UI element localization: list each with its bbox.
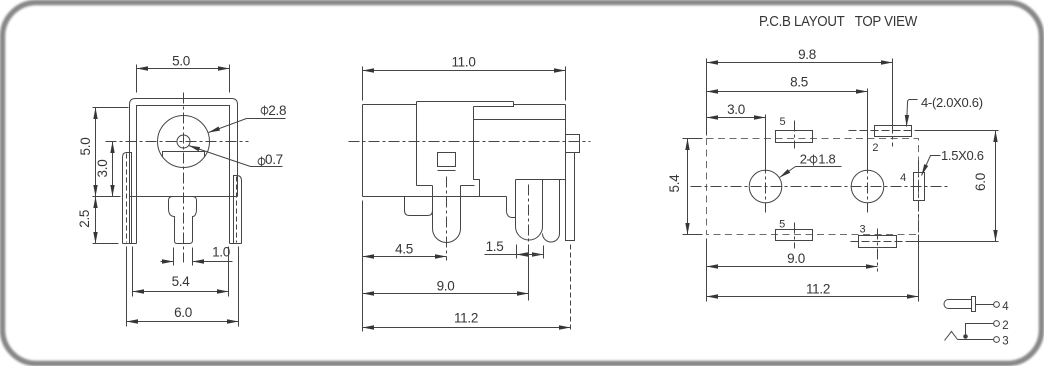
dim 1.0 line right bbox=[193, 261, 233, 263]
svg-text:5: 5 bbox=[779, 116, 785, 128]
front barrel circle (phi 2.8) bbox=[158, 116, 210, 168]
symbol plug barrel bbox=[944, 299, 972, 308]
side mid/rear boundary bbox=[474, 107, 480, 197]
symbol pin2 terminal bbox=[994, 321, 1000, 327]
dim 6.0 extensions bbox=[127, 247, 239, 327]
left wing lug bbox=[123, 153, 132, 244]
pcb pad 3 bbox=[859, 236, 897, 248]
dim 5.4 vertical extensions bbox=[683, 139, 703, 235]
dim 6.0 vertical line bbox=[995, 131, 997, 242]
pcb pad3 centerline bbox=[877, 229, 879, 272]
leader 4-(2.0X0.6) bbox=[907, 100, 918, 127]
symbol switch contact bbox=[945, 332, 958, 341]
dim 1.0 line left bbox=[161, 261, 174, 263]
symbol junction dot bbox=[964, 335, 968, 339]
side rear pin A centerline bbox=[528, 185, 530, 255]
svg-text:2: 2 bbox=[1002, 320, 1008, 332]
front body inner lines bbox=[137, 106, 230, 197]
svg-text:11.0: 11.0 bbox=[451, 55, 475, 70]
pcb horizontal centerline bbox=[691, 186, 949, 188]
left inner edge extension below bbox=[136, 197, 138, 244]
svg-text:4.5: 4.5 bbox=[395, 241, 413, 256]
pcb pad4 centerline extension bbox=[918, 235, 920, 302]
pcb pad2 centerline extension bbox=[892, 59, 894, 123]
phi glyph of 2-1.8 label bbox=[810, 156, 817, 163]
svg-text:4-(2.0X0.6): 4-(2.0X0.6) bbox=[921, 95, 983, 110]
front horizontal centerline bbox=[106, 141, 249, 143]
pcb hole left centerline extension bbox=[765, 115, 767, 163]
dim 5.0 left line bbox=[95, 108, 97, 197]
CONNECTOR SCHEMATIC SYMBOL bbox=[944, 297, 999, 343]
left wing bottom bbox=[123, 243, 137, 245]
svg-text:5.0: 5.0 bbox=[172, 54, 190, 69]
dim 11.2 line bbox=[707, 296, 919, 298]
pcb hole right bbox=[851, 170, 884, 203]
svg-text:5.4: 5.4 bbox=[172, 274, 191, 289]
svg-text:2.5: 2.5 bbox=[77, 210, 92, 228]
phi glyph of 2.8 label bbox=[261, 107, 268, 114]
side left extension below bbox=[362, 201, 364, 332]
pcb left dims common extension bbox=[706, 59, 708, 136]
front vertical centerline bbox=[183, 93, 185, 263]
pcb slot 5 bottom bbox=[776, 230, 813, 241]
right wing lug bbox=[234, 176, 242, 244]
side lug extension dashed bbox=[570, 245, 572, 332]
left wing hidden dash line bbox=[126, 154, 128, 243]
svg-text:1.0: 1.0 bbox=[212, 245, 230, 260]
pcb slot5 bottom centerline bbox=[794, 223, 796, 249]
leader phi2.8 bbox=[209, 119, 247, 133]
leader phi0.7 underline bbox=[251, 166, 283, 168]
leader phi0.7 bbox=[189, 146, 251, 167]
svg-text:9.8: 9.8 bbox=[798, 47, 816, 62]
right wing bottom bbox=[230, 243, 242, 245]
svg-text:P.C.B LAYOUT TOP VIEW: P.C.B LAYOUT TOP VIEW bbox=[759, 14, 918, 30]
right inner edge extension below bbox=[229, 197, 231, 244]
pcb pad4 centerline bbox=[918, 161, 920, 235]
front contact chord bbox=[163, 152, 205, 158]
side rear foot bbox=[507, 197, 516, 218]
dim 4.5 line bbox=[363, 256, 447, 258]
symbol plug flange bbox=[972, 297, 976, 312]
center solder pin bbox=[169, 197, 197, 244]
svg-text:1.5: 1.5 bbox=[486, 239, 504, 254]
side top tab bbox=[474, 102, 514, 107]
dim 3.0 line bbox=[707, 117, 766, 119]
dim 5.4 vertical line bbox=[687, 139, 689, 235]
dim 2.5 left line bbox=[95, 197, 97, 244]
svg-text:2.8: 2.8 bbox=[268, 103, 286, 118]
SIDE VIEW bbox=[349, 67, 591, 332]
pcb pad2 horizontal centerline bbox=[849, 130, 921, 132]
dim 9.0 line bbox=[363, 293, 529, 295]
svg-text:5.0: 5.0 bbox=[78, 138, 93, 156]
dim 11.0 line bbox=[363, 70, 566, 72]
dim 11.2 line bbox=[363, 327, 571, 329]
svg-text:2: 2 bbox=[872, 142, 878, 154]
svg-text:2-: 2- bbox=[800, 152, 811, 167]
dim 5.0 top line bbox=[137, 68, 230, 70]
phi glyph of 0.7 label bbox=[258, 158, 265, 165]
pcb outline dashed rect bbox=[707, 139, 919, 235]
symbol pin4 terminal bbox=[994, 302, 1000, 308]
leader 1.5X0.6 bbox=[922, 156, 941, 176]
svg-text:9.0: 9.0 bbox=[437, 279, 455, 294]
dim 1.5 inner arrow bbox=[517, 254, 544, 256]
FRONT VIEW bbox=[93, 65, 286, 327]
dim 6.0 bottom extension bbox=[909, 241, 999, 243]
dim 6.0 line bbox=[127, 321, 239, 323]
side rear inner line bbox=[474, 119, 566, 121]
dim 5.4 extensions bbox=[133, 247, 229, 297]
svg-text:8.5: 8.5 bbox=[790, 75, 808, 90]
side rear pin A centerline extension bbox=[528, 255, 530, 301]
dim 1.5 line bbox=[485, 254, 544, 256]
front body outer shell bbox=[130, 99, 238, 197]
dim 6.0 top extension bbox=[921, 130, 999, 132]
pcb hole right centerline extension bbox=[867, 89, 869, 163]
svg-text:3: 3 bbox=[1002, 336, 1008, 348]
dim 3.0 left line bbox=[112, 142, 114, 197]
side front foot bbox=[405, 197, 433, 216]
side lug bar bbox=[566, 153, 575, 241]
dim 5.0 top extension lines bbox=[137, 65, 230, 93]
pcb hole left bbox=[749, 170, 782, 203]
side rear top edge bbox=[514, 104, 566, 106]
side body left edge bbox=[362, 105, 364, 197]
svg-text:6.0: 6.0 bbox=[973, 173, 988, 191]
side front/mid boundary bbox=[416, 102, 418, 186]
side notch bbox=[417, 185, 433, 187]
pcb pad 2 bbox=[875, 126, 912, 137]
svg-text:11.2: 11.2 bbox=[806, 281, 830, 296]
pcb pad 4 bbox=[914, 173, 925, 201]
svg-text:0.7: 0.7 bbox=[265, 152, 283, 167]
front body bottom edge bbox=[130, 196, 238, 198]
left body edge extension below bbox=[129, 197, 131, 244]
dim 9.0 line bbox=[707, 266, 878, 268]
dim 1.0 extensions bbox=[174, 248, 193, 266]
side mid top edge bbox=[417, 101, 514, 103]
pcb pad2 centerline bbox=[892, 123, 894, 147]
dim 5.0 left extensions bbox=[93, 108, 129, 197]
svg-text:4: 4 bbox=[1002, 301, 1009, 313]
leader 2-phi1.8 underline bbox=[796, 166, 842, 168]
pcb pad3 horizontal centerline bbox=[851, 241, 909, 243]
side rear pin A bbox=[516, 180, 543, 241]
dim 8.5 line bbox=[707, 91, 868, 93]
side lug tab bbox=[566, 135, 580, 153]
svg-text:3: 3 bbox=[859, 223, 865, 235]
side rear pin B bbox=[543, 180, 560, 243]
PCB LAYOUT VIEW bbox=[683, 59, 999, 302]
dim 5.4 line bbox=[133, 291, 229, 293]
side middle pin centerline bbox=[446, 177, 448, 261]
svg-text:3.0: 3.0 bbox=[727, 102, 745, 117]
svg-text:4: 4 bbox=[900, 172, 906, 184]
side crimp window bbox=[438, 153, 456, 167]
pcb hole left centerline bbox=[765, 163, 767, 213]
dim 1.5 extensions bbox=[517, 245, 544, 259]
side barrel top bbox=[363, 104, 417, 106]
svg-text:11.2: 11.2 bbox=[454, 311, 478, 326]
svg-text:5.4: 5.4 bbox=[667, 174, 682, 193]
side right edge bbox=[565, 105, 567, 180]
dim 9.8 line bbox=[707, 62, 893, 64]
svg-text:6.0: 6.0 bbox=[174, 305, 192, 320]
pcb slot5 top centerline bbox=[794, 121, 796, 149]
front center pin circle (phi 0.7) bbox=[177, 135, 190, 148]
svg-text:1.8: 1.8 bbox=[818, 152, 835, 167]
svg-text:3.0: 3.0 bbox=[95, 160, 110, 178]
svg-text:9.0: 9.0 bbox=[787, 251, 805, 266]
svg-text:5: 5 bbox=[779, 219, 785, 231]
right wing hidden dash line bbox=[236, 177, 238, 243]
leader 2-phi1.8 bbox=[780, 167, 796, 178]
side middle pin bbox=[433, 186, 461, 243]
side horizontal centerline bbox=[349, 141, 591, 143]
symbol pin4 lead bbox=[976, 304, 994, 306]
pcb slot 5 top bbox=[776, 131, 813, 143]
symbol pin3 lead bbox=[958, 339, 994, 341]
dim 2.5 bottom extension bbox=[93, 243, 119, 245]
side body bottom edge bbox=[363, 196, 507, 198]
pcb bottom dims common extension bbox=[706, 239, 708, 302]
side rear bottom edge bbox=[516, 179, 566, 181]
side crimp window lower line bbox=[438, 170, 456, 172]
leader phi2.8 underline bbox=[247, 118, 286, 120]
symbol pin2 lead bbox=[966, 324, 994, 339]
svg-text:1.5X0.6: 1.5X0.6 bbox=[941, 148, 984, 163]
pcb hole right centerline bbox=[867, 163, 869, 213]
symbol pin3 terminal bbox=[994, 337, 1000, 343]
side pin slot right edge bbox=[461, 185, 475, 187]
dim 11.0 extensions bbox=[363, 67, 566, 101]
